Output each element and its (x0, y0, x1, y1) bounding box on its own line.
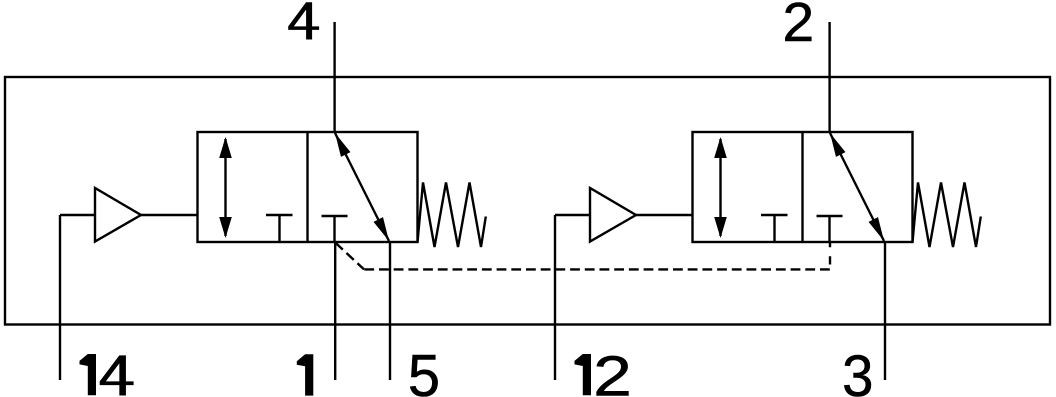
valve U2 body (693, 132, 913, 242)
valve U1 pilot actuator triangle (60, 188, 198, 242)
svg-text:3: 3 (842, 344, 873, 397)
dashed pilot signal wire riser (829, 242, 831, 264)
valve U2 return spring (913, 183, 981, 248)
wire pilot 14 drop (59, 215, 61, 380)
wire port 3 (884, 242, 886, 380)
svg-text:2: 2 (782, 0, 814, 53)
valve U1 chamber divider (306, 132, 308, 242)
svg-text:5: 5 (408, 343, 440, 397)
valve U2 blocked port (rest box) (817, 216, 843, 242)
valve U1 body (198, 132, 418, 242)
valve U1 blocked port (rest box) (322, 216, 348, 242)
valve U2 flow arrow (actuated box) (714, 137, 727, 238)
valve U2 pilot actuator triangle (555, 188, 693, 242)
valve U2 chamber divider (801, 132, 803, 242)
wire port 2 (828, 22, 830, 132)
port label 1 (297, 354, 314, 395)
port label 12 (575, 346, 632, 397)
wire port 4 (333, 22, 335, 132)
valve U1 diagonal flow arrow (rest box) (335, 133, 389, 241)
valve U1 blocked port (left box) (266, 215, 293, 242)
wire port 5 (389, 242, 391, 380)
valve U1 flow arrow (actuated box) (219, 137, 232, 238)
valve U2 diagonal flow arrow (rest box) (830, 133, 884, 241)
port label 14 (80, 354, 134, 395)
port label 4 (288, 2, 319, 39)
enclosure frame (5, 77, 1050, 325)
dashed pilot signal wire horizontal (364, 268, 830, 270)
wire pilot 12 drop (554, 215, 556, 380)
svg-text:2: 2 (593, 346, 632, 397)
dashed pilot signal wire diagonal (336, 243, 365, 270)
valve U2 blocked port (left box) (761, 215, 788, 242)
wire port 1 (334, 242, 336, 380)
valve U1 return spring (418, 183, 486, 248)
